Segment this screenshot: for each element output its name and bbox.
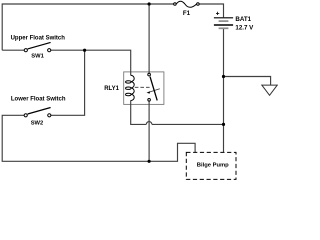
svg-text:12.7 V: 12.7 V (235, 24, 254, 31)
svg-text:RLY1: RLY1 (104, 86, 119, 92)
svg-text:Bilge Pump: Bilge Pump (197, 163, 229, 169)
svg-text:SW2: SW2 (31, 121, 44, 127)
svg-text:F1: F1 (183, 10, 191, 17)
svg-text:Lower Float Switch: Lower Float Switch (11, 97, 66, 103)
svg-text:Upper Float Switch: Upper Float Switch (11, 35, 66, 41)
svg-text:BAT1: BAT1 (235, 16, 251, 23)
svg-text:SW1: SW1 (31, 54, 44, 60)
